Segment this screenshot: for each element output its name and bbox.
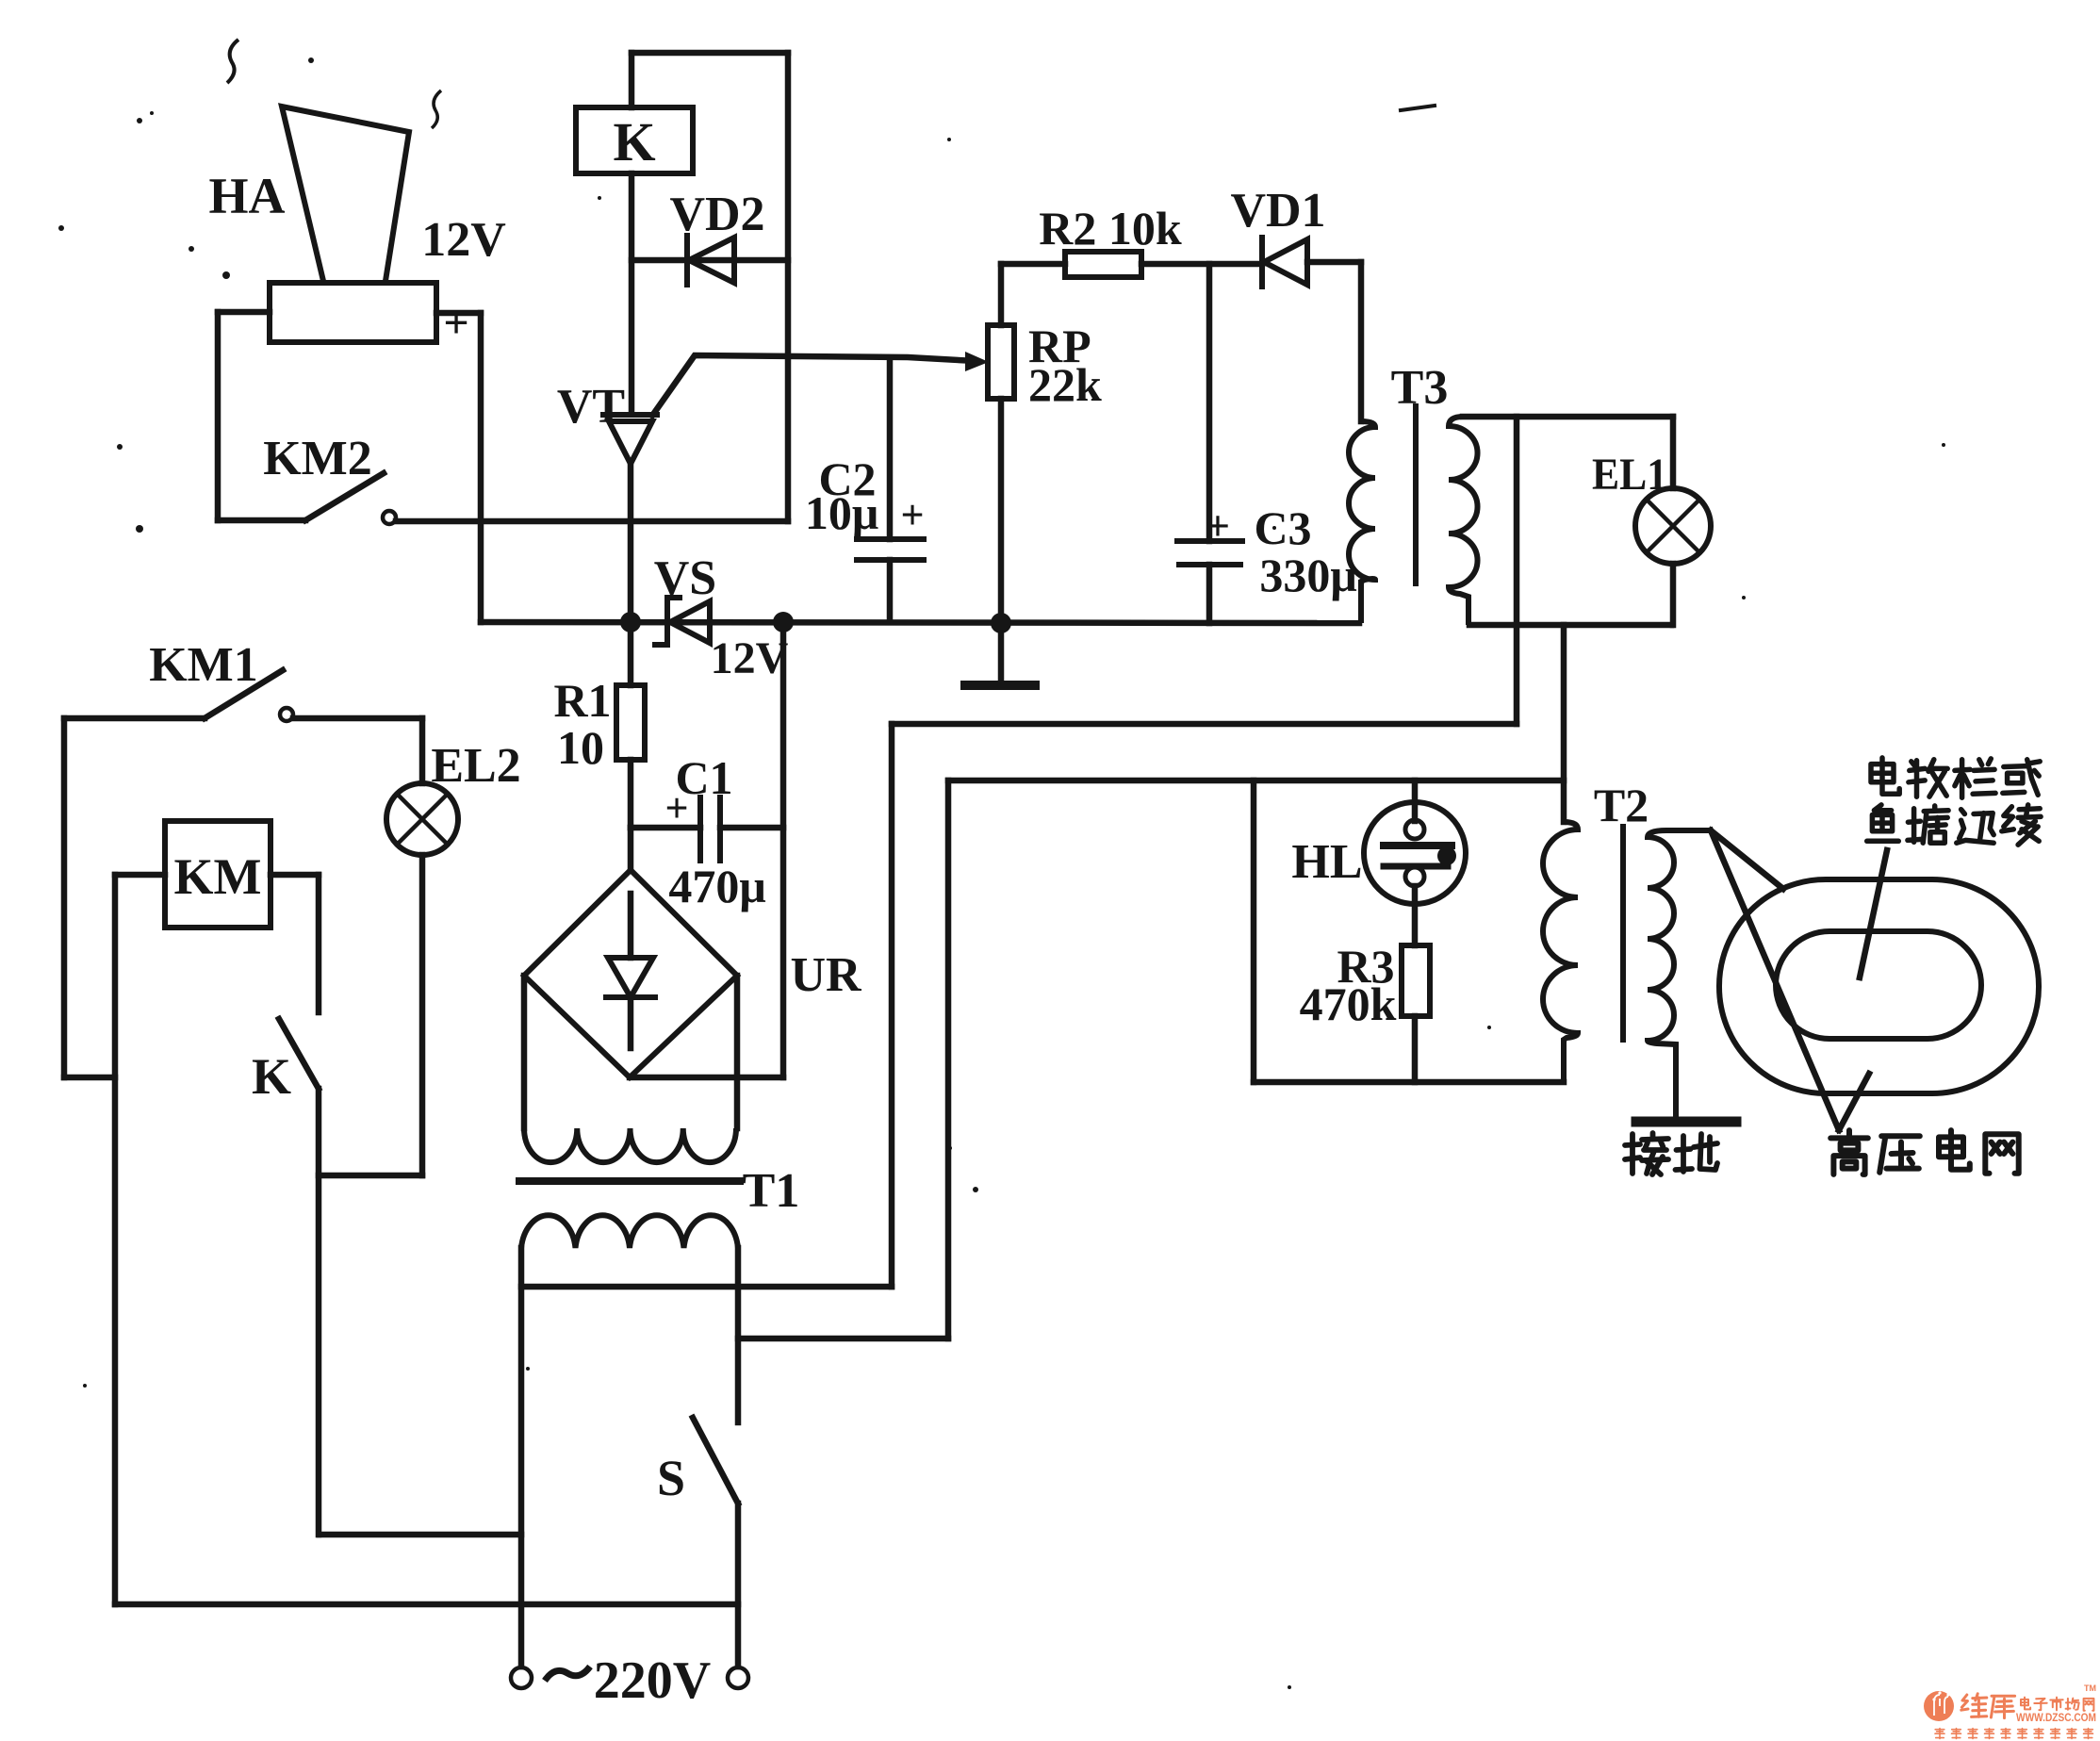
svg-text:470k: 470k bbox=[1300, 977, 1397, 1030]
horn HA cone bbox=[282, 107, 409, 281]
diode VD2 bbox=[632, 236, 788, 285]
ground symbol bbox=[965, 623, 1035, 685]
switch KM1 bbox=[64, 670, 422, 721]
wire battery negative to KM2 bbox=[218, 312, 305, 520]
relay K box bbox=[576, 107, 693, 173]
svg-text:VD2: VD2 bbox=[669, 188, 764, 241]
thyristor VT label bbox=[557, 380, 625, 434]
transformer T2 core bbox=[1620, 827, 1626, 1040]
transformer T3 primary winding bbox=[1349, 421, 1375, 623]
svg-text:R2 10k: R2 10k bbox=[1039, 202, 1182, 255]
svg-text:S: S bbox=[657, 1450, 685, 1506]
svg-text:HL: HL bbox=[1291, 835, 1362, 889]
potentiometer RP labels bbox=[1028, 320, 1102, 411]
label 12V battery bbox=[421, 213, 506, 267]
bridge rectifier UR bbox=[524, 828, 737, 1077]
capacitor C2 bbox=[857, 359, 924, 622]
fence loop outer bbox=[1719, 879, 2039, 1093]
label 高压电网 bbox=[1830, 1130, 2019, 1174]
svg-text:T3: T3 bbox=[1391, 361, 1449, 415]
svg-text:HA: HA bbox=[209, 168, 286, 224]
wire T1 primary right to switch S bbox=[735, 1248, 742, 1422]
label HA bbox=[209, 168, 286, 224]
capacitor C2 labels bbox=[805, 452, 925, 539]
resistor R1 bbox=[616, 622, 645, 828]
mains terminal right bbox=[728, 1667, 748, 1688]
resistor R1 label bbox=[553, 674, 611, 774]
wire battery plus down to rail bbox=[436, 313, 481, 622]
switch S blade bbox=[693, 1418, 738, 1503]
svg-text:VS: VS bbox=[654, 551, 716, 605]
thyristor VT bbox=[603, 415, 657, 622]
switch S label bbox=[657, 1450, 685, 1506]
bridge rectifier UR label bbox=[790, 948, 862, 1002]
transformer T1 secondary winding bbox=[524, 1128, 736, 1162]
svg-text:KM1: KM1 bbox=[149, 638, 258, 692]
wire KM left bbox=[115, 875, 165, 1604]
leader to 高压电网 bbox=[1711, 830, 1869, 1130]
svg-text:VT: VT bbox=[557, 380, 625, 434]
relay K label bbox=[613, 111, 655, 172]
earth ground bar bbox=[1636, 1117, 1736, 1127]
fence loop inner bbox=[1776, 931, 1981, 1039]
wire bridge plus to rail bbox=[780, 622, 787, 1077]
wire VD1 to T3 primary bbox=[1358, 262, 1365, 421]
switch KM2 label bbox=[263, 432, 372, 485]
transformer T1 core bbox=[519, 1177, 740, 1185]
diode VD2 label bbox=[669, 188, 764, 241]
wire T1 primary left down to mains terminal bbox=[518, 1248, 525, 1667]
svg-text:22k: 22k bbox=[1028, 358, 1102, 411]
capacitor C3 labels bbox=[1206, 501, 1357, 601]
diode VD1 bbox=[1262, 238, 1361, 287]
svg-text:K: K bbox=[613, 111, 655, 172]
wire S to mains terminal bbox=[735, 1503, 742, 1667]
svg-text:10: 10 bbox=[557, 721, 604, 774]
wire main rail left section bbox=[481, 622, 1359, 623]
svg-text:470μ: 470μ bbox=[668, 860, 765, 912]
transformer T2 label bbox=[1594, 779, 1649, 831]
wire KM2 contact to K-loop bbox=[396, 518, 788, 525]
svg-text:+: + bbox=[1206, 501, 1230, 550]
svg-text:C3: C3 bbox=[1254, 501, 1311, 554]
wire T2 to fence bbox=[1711, 830, 1783, 889]
svg-text:KM2: KM2 bbox=[263, 432, 372, 485]
label 电牧栏或 bbox=[1871, 758, 2040, 797]
node VS cathode rail bbox=[773, 612, 794, 632]
wire right branch of K loop bbox=[785, 53, 792, 521]
resistor R3 bbox=[1402, 945, 1430, 1082]
switch KM1 label bbox=[149, 638, 258, 692]
svg-text:R1: R1 bbox=[553, 674, 611, 727]
wire K coil to VT anode bbox=[629, 173, 635, 413]
wire T1 left to EL1 loop riser bbox=[521, 1284, 892, 1290]
svg-text:220V: 220V bbox=[594, 1651, 711, 1710]
transformer T2 secondary winding bbox=[1648, 830, 1711, 1118]
wire KM right to switch K bbox=[271, 875, 319, 1012]
lamp EL1 label bbox=[1592, 450, 1667, 500]
potentiometer RP bbox=[988, 264, 1014, 623]
wire T2 primary tap bbox=[738, 1336, 948, 1342]
wire rail to T2 primary bbox=[1561, 625, 1567, 822]
svg-text:UR: UR bbox=[790, 948, 862, 1002]
wire EL1 loop to mains riser bbox=[892, 417, 1517, 1287]
svg-text:+: + bbox=[664, 785, 688, 831]
wire VT gate to RP wiper bbox=[652, 352, 989, 416]
capacitor C1 bbox=[631, 797, 783, 861]
diode VD1 label bbox=[1230, 184, 1325, 238]
svg-text:330μ: 330μ bbox=[1259, 549, 1356, 601]
svg-text:TM: TM bbox=[2084, 1684, 2096, 1693]
lamp EL2 label bbox=[431, 739, 520, 793]
wire K switch to T1 left node bbox=[320, 1532, 521, 1538]
wire bridge AC left to T1 bbox=[521, 976, 528, 1128]
wire main rail right section bbox=[1469, 622, 1671, 629]
wire bridge AC right to T1 bbox=[734, 976, 741, 1128]
relay coil KM box bbox=[165, 821, 271, 928]
svg-text:12V: 12V bbox=[421, 213, 506, 267]
wire T2 primary feed riser bbox=[945, 780, 952, 1339]
wire bridge output bbox=[630, 1075, 783, 1081]
neon lamp HL label bbox=[1291, 835, 1362, 889]
neon lamp HL bbox=[1364, 780, 1466, 945]
wire mains bottom run bbox=[115, 1601, 738, 1608]
wire K bottom bbox=[316, 1089, 322, 1535]
switch K label bbox=[252, 1048, 291, 1105]
label 12V zener bbox=[711, 633, 789, 683]
svg-text:T1: T1 bbox=[743, 1164, 800, 1218]
svg-text:+: + bbox=[900, 492, 924, 538]
svg-text:WWW.DZSC.COM: WWW.DZSC.COM bbox=[2016, 1713, 2096, 1724]
capacitor C3 bbox=[1177, 264, 1242, 623]
svg-text:EL2: EL2 bbox=[431, 739, 520, 793]
svg-text:+: + bbox=[443, 298, 468, 348]
watermark 维库电子市场网 bbox=[1924, 1684, 2096, 1739]
leader to 电牧栏 bbox=[1860, 850, 1887, 977]
svg-text:12V: 12V bbox=[711, 633, 789, 683]
wire HL box left side bbox=[1251, 780, 1257, 1082]
lamp EL1 bbox=[1635, 417, 1711, 625]
capacitor C1 labels bbox=[664, 751, 765, 912]
wire T3 secondary top to EL1 bbox=[1463, 414, 1673, 420]
zener VS label bbox=[654, 551, 716, 605]
transformer T3 secondary winding bbox=[1449, 417, 1478, 625]
wire HL box bottom bbox=[1254, 1079, 1564, 1086]
resistor R2 label bbox=[1039, 202, 1182, 255]
transformer T1 primary winding bbox=[521, 1215, 738, 1248]
svg-text:KM: KM bbox=[174, 848, 262, 905]
lamp EL2 bbox=[386, 718, 458, 1175]
wire HL top run bbox=[948, 778, 1564, 784]
transformer T2 primary winding bbox=[1543, 822, 1578, 1082]
node VT cathode bbox=[620, 612, 641, 632]
svg-text:VD1: VD1 bbox=[1230, 184, 1325, 238]
wire KM1 left down bbox=[64, 718, 115, 1077]
horn HA body / 12V battery box bbox=[270, 283, 436, 342]
switch KM2 contact bbox=[383, 511, 396, 524]
node RP bottom rail bbox=[991, 613, 1011, 633]
label 鱼塘边缘 bbox=[1867, 805, 2041, 845]
resistor R2 bbox=[1001, 252, 1262, 277]
wire top loop over relay K bbox=[632, 53, 788, 107]
resistor R3 labels bbox=[1300, 940, 1397, 1030]
switch KM2 blade bbox=[305, 473, 384, 520]
wire EL2 to switch K bottom bbox=[319, 1173, 422, 1179]
relay coil KM label bbox=[174, 848, 262, 905]
svg-text:10μ: 10μ bbox=[805, 486, 878, 539]
zener VS bbox=[655, 598, 710, 645]
transformer T3 core bbox=[1413, 406, 1419, 583]
battery plus sign bbox=[443, 298, 468, 348]
label ~220V bbox=[545, 1651, 711, 1710]
transformer T1 label bbox=[743, 1164, 800, 1218]
mains terminal left bbox=[511, 1667, 532, 1688]
switch K blade bbox=[279, 1019, 319, 1089]
svg-text:K: K bbox=[252, 1048, 291, 1105]
svg-text:T2: T2 bbox=[1594, 779, 1649, 831]
label 接地 bbox=[1625, 1133, 1717, 1174]
transformer T3 label bbox=[1391, 361, 1449, 415]
